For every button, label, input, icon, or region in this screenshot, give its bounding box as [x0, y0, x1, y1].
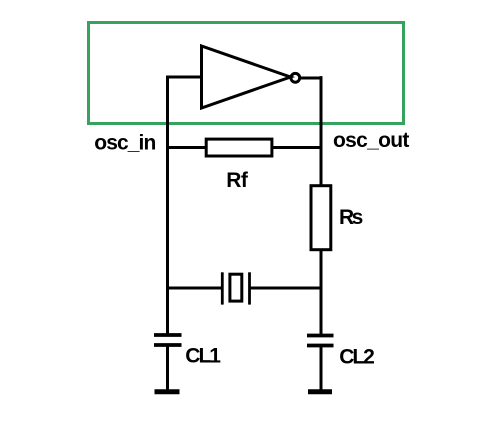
wire: crystal right lead — [251, 287, 323, 290]
label CL1 — [185, 345, 221, 368]
capacitor CL2 bottom plate — [307, 344, 334, 348]
op-amp U1 (inverter triangle) — [202, 46, 291, 108]
resistor Rf — [206, 139, 272, 156]
svg-text:Rf: Rf — [226, 169, 249, 192]
wire: Rf left lead — [166, 146, 206, 149]
svg-text:Rs: Rs — [339, 206, 363, 229]
label Rs — [339, 206, 363, 229]
crystal X1 right plate — [248, 272, 251, 304]
wire: left vertical (osc_in net) — [166, 76, 169, 336]
crystal X1 left plate — [221, 272, 224, 304]
inverter output bubble — [291, 73, 300, 82]
resistor Rs — [311, 186, 331, 250]
crystal X1 body — [230, 274, 242, 301]
inverter highlight box — [89, 23, 404, 124]
wire: CL1 to ground — [166, 345, 169, 392]
wire: Rf right lead — [272, 146, 323, 149]
label Rf — [226, 169, 249, 192]
capacitor CL2 top plate — [307, 334, 334, 338]
wire: CL2 to ground — [320, 346, 323, 393]
svg-text:osc_in: osc_in — [94, 131, 155, 154]
wire: inverter input — [166, 76, 203, 79]
svg-text:CL2: CL2 — [339, 346, 374, 369]
svg-text:osc_out: osc_out — [333, 129, 409, 152]
ground (left) — [155, 389, 180, 394]
label CL2 — [339, 346, 374, 369]
wire: right vertical lower — [320, 250, 323, 337]
capacitor CL1 bottom plate — [154, 343, 182, 347]
node osc_in — [94, 131, 155, 154]
wire: right vertical upper (osc_out net) — [320, 76, 323, 186]
wire: crystal left lead — [166, 287, 222, 290]
wire: inverter output — [300, 77, 323, 80]
capacitor CL1 top plate — [154, 333, 182, 337]
node osc_out — [333, 129, 409, 152]
ground (right) — [308, 389, 332, 394]
svg-text:CL1: CL1 — [185, 345, 221, 368]
